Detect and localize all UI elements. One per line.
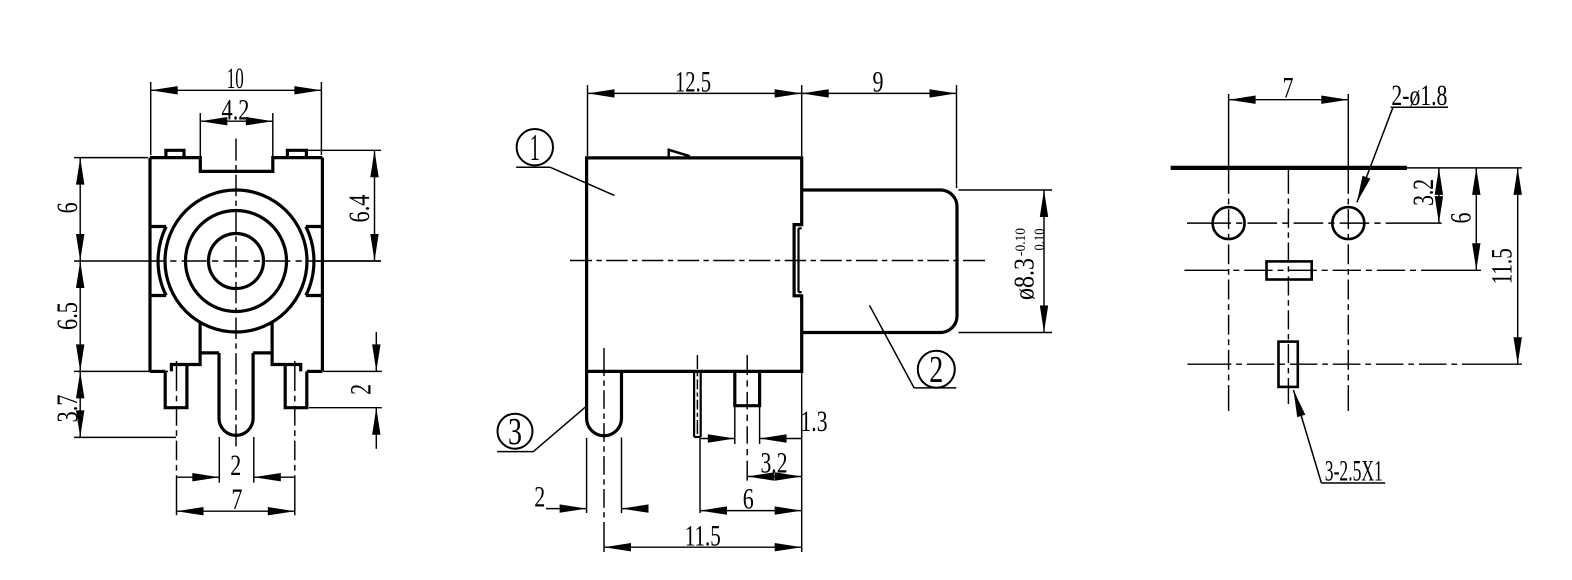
dimension 3.2 right view xyxy=(1407,168,1443,223)
left view: bottom edges, legs and center pin xyxy=(150,322,322,435)
dimension 7 hole spacing xyxy=(1229,71,1349,104)
svg-text:3: 3 xyxy=(508,411,522,453)
dimension 6.5 center to body bottom xyxy=(51,261,168,371)
left view: front view body outline xyxy=(150,158,322,372)
right view: hole A dia 1.8 xyxy=(1213,207,1245,239)
svg-text:7: 7 xyxy=(1283,71,1294,104)
left view: top mounting tabs xyxy=(166,150,307,157)
right view: hole A vertical center line xyxy=(1228,94,1230,411)
dimension 3.7 body bottom to pin tip xyxy=(51,371,176,437)
right view: horizontal slot 2.5x1 xyxy=(1267,261,1312,279)
dimension 12.5 body width xyxy=(588,65,802,156)
dimension 11.5 pin 1 to face xyxy=(604,371,802,552)
dimension 6 pin 2 to face xyxy=(700,438,802,515)
dimension 6.4 tab top to center xyxy=(308,150,381,261)
dimension 6 body top to center xyxy=(51,158,148,261)
svg-text:2: 2 xyxy=(929,349,943,391)
svg-text:3.2: 3.2 xyxy=(761,446,788,479)
svg-text:6.4: 6.4 xyxy=(343,195,376,223)
svg-text:1: 1 xyxy=(530,127,540,169)
right view: PCB mounting face line xyxy=(1171,166,1522,170)
svg-text:3.2: 3.2 xyxy=(1407,179,1440,206)
svg-text:1.3: 1.3 xyxy=(801,405,828,438)
svg-text:0.10: 0.10 xyxy=(1032,229,1048,251)
svg-text:3.7: 3.7 xyxy=(51,395,84,423)
dimension 2 pin 1 width xyxy=(534,438,648,514)
svg-text:10: 10 xyxy=(227,62,244,95)
dimension 9 barrel length xyxy=(802,65,957,188)
svg-text:6.5: 6.5 xyxy=(51,302,84,330)
svg-text:6: 6 xyxy=(51,202,84,213)
right view: v-slot horizontal center line xyxy=(1187,363,1522,365)
svg-text:11.5: 11.5 xyxy=(1486,248,1519,284)
svg-text:-0.10: -0.10 xyxy=(1013,228,1029,256)
middle view: pin 2 center line xyxy=(696,355,698,434)
middle view: contact spring inner line xyxy=(799,228,802,292)
dimension 7 leg spacing xyxy=(177,483,295,516)
middle view: pin 2 blade leg xyxy=(694,371,701,437)
middle view: latch bump on top xyxy=(669,150,690,158)
right view: middle vertical center line xyxy=(1287,168,1289,404)
dimension 3.2 pin 3 to face xyxy=(747,446,802,480)
left view: side notch lines and flange arcs xyxy=(150,227,322,296)
middle view: horizontal center line xyxy=(570,260,985,262)
left view: leg center lines xyxy=(177,361,295,515)
right view: hole B dia 1.8 xyxy=(1332,207,1364,239)
left view: vertical center line xyxy=(235,139,237,447)
balloon label 2 with leader xyxy=(870,305,957,391)
label 2-dia1.8 with leader arrow xyxy=(1357,79,1448,202)
dimension 10 top width xyxy=(151,62,322,155)
right view: holes horizontal center line xyxy=(1187,222,1442,224)
dimension 2 right side leg length xyxy=(309,332,382,449)
right view: vertical slot 2.5x1 xyxy=(1279,342,1298,387)
middle view: barrel with rounded right corners xyxy=(802,190,957,333)
svg-text:9: 9 xyxy=(873,65,884,98)
middle view: body outline with right edge jog xyxy=(587,158,802,372)
middle view: pin 3 center line xyxy=(746,355,748,481)
svg-text:4.2: 4.2 xyxy=(222,93,250,126)
svg-text:2: 2 xyxy=(534,480,545,513)
left view: horizontal center line xyxy=(74,260,381,262)
svg-text:2: 2 xyxy=(230,449,241,482)
right view: h-slot horizontal center line xyxy=(1184,269,1481,271)
balloon label 3 with leader xyxy=(497,406,586,453)
dimension 11.5 right view xyxy=(1486,168,1522,364)
dimension 1.3 pin 3 width xyxy=(701,405,828,444)
middle view: pin 1 center line xyxy=(603,348,605,552)
svg-text:2: 2 xyxy=(345,384,378,395)
dimension 4.2 recess width xyxy=(200,93,272,169)
dimension 6 right view xyxy=(1444,168,1480,270)
svg-text:12.5: 12.5 xyxy=(675,65,711,98)
dimension dia 8.3 with tolerances xyxy=(959,190,1053,333)
middle view: pin 1 round leg xyxy=(587,371,622,435)
right view: hole B vertical center line xyxy=(1347,94,1349,411)
balloon label 1 with leader xyxy=(516,127,614,195)
left view: concentric circles of jack xyxy=(165,190,307,332)
svg-text:6: 6 xyxy=(1444,213,1477,224)
svg-text:11.5: 11.5 xyxy=(685,519,721,552)
middle view: pin 3 short leg xyxy=(735,371,760,405)
svg-text:7: 7 xyxy=(231,483,242,516)
svg-text:ø8.3: ø8.3 xyxy=(1010,258,1041,300)
dimension 2 bottom pin width xyxy=(177,437,295,483)
svg-text:6: 6 xyxy=(743,482,754,515)
label 3-2.5X1 with leader arrow xyxy=(1294,390,1386,488)
